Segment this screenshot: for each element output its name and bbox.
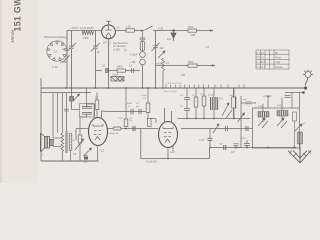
svg-text:5000: 5000 — [127, 103, 133, 105]
dial lamp La1 — [140, 52, 146, 58]
svg-text:713: 713 — [100, 149, 105, 153]
svg-text:+ 150 V: + 150 V — [69, 26, 78, 30]
cap C16 on y147 — [244, 140, 250, 148]
rail end arrow — [210, 29, 213, 31]
UY11 top cap — [106, 21, 110, 25]
svg-text:U 1 2 3: U 1 2 3 — [257, 53, 265, 55]
lamp terminal blob — [304, 86, 307, 89]
svg-text:µµF: µµF — [231, 152, 236, 154]
coil unit 1 hatched — [259, 112, 268, 118]
svg-text:1 2 3 4 5 6 7 8 9: 1 2 3 4 5 6 7 8 9 — [166, 83, 183, 85]
capacitor C6 on y70 — [132, 68, 134, 73]
coil unit 2 hatched — [278, 111, 287, 117]
series cap on y128 — [133, 126, 135, 131]
resistor R4 box — [188, 64, 197, 67]
grid wire y128 left — [76, 128, 89, 130]
resistor R14 x233 — [232, 97, 236, 108]
wire x108 vertical — [108, 38, 110, 88]
svg-text:0,1µF: 0,1µF — [208, 95, 214, 97]
pot arrow above antenna coil — [295, 124, 302, 131]
feed wires into transformer — [53, 93, 66, 134]
svg-text:a b c d e f g h i: a b c d e f g h i — [164, 91, 178, 93]
y147 dots — [246, 147, 269, 149]
right components row: caps C10 stacked — [184, 88, 190, 119]
V1 bottom lead — [97, 145, 99, 161]
wire x155.5 vertical — [155, 31, 157, 46]
resistor R9 vertical x97 — [95, 100, 99, 110]
resistor R1 sawtooth under rail — [82, 31, 93, 35]
wire y118.5 left — [148, 118, 156, 120]
tube V2 envelope — [159, 122, 178, 148]
wire y147.5 — [234, 147, 294, 149]
svg-text:C 22: C 22 — [52, 65, 58, 69]
junction dot y128 — [125, 128, 127, 130]
right verticals from bus — [233, 88, 235, 119]
svg-text:Mende: Mende — [10, 29, 15, 42]
svg-text:≈18: ≈18 — [205, 46, 210, 49]
svg-text:4µF: 4µF — [167, 38, 172, 41]
wire y147.5 mid — [210, 147, 241, 149]
grid wire y128 mid — [108, 128, 159, 130]
speaker magnet — [50, 139, 54, 145]
coupling resistor oval — [113, 127, 121, 130]
svg-text:5µF: 5µF — [219, 98, 223, 100]
x76 drop — [75, 129, 77, 141]
y118 dots — [186, 118, 235, 120]
wire y70 horizontal — [96, 70, 141, 72]
cap C11 on y128 — [226, 126, 228, 131]
main bus y88 — [41, 87, 306, 89]
switch S1 — [145, 26, 158, 31]
svg-text:1500: 1500 — [83, 37, 89, 40]
electrolytic C4 triangle — [171, 30, 176, 41]
box right x209.5 — [209, 148, 211, 159]
dial lamp — [303, 70, 313, 78]
arrow into antenna wire — [294, 146, 298, 149]
left margin strip — [0, 0, 38, 183]
pot arrow on y128 — [213, 124, 219, 133]
tiny cap on x66.4 — [64, 109, 69, 111]
switch below V1 — [83, 148, 92, 156]
R12 wires — [203, 88, 205, 96]
top rail mid segment — [115, 30, 144, 32]
svg-text:in 250 … 2µ: in 250 … 2µ — [113, 48, 127, 51]
svg-text:0,1µF 1500V: 0,1µF 1500V — [80, 27, 94, 30]
series cap x247 — [246, 126, 248, 131]
left stub cap — [234, 144, 239, 148]
V2 top leads — [164, 108, 166, 123]
switch on x67 — [64, 55, 71, 62]
UY11 electrodes — [106, 26, 112, 39]
grid resistor box R10b — [148, 119, 152, 127]
svg-text:8Ω: 8Ω — [275, 53, 278, 55]
T1 bottom wires — [61, 151, 63, 161]
L1 wires — [213, 88, 215, 97]
svg-text:5000: 5000 — [117, 66, 123, 69]
tube socket detail — [47, 41, 67, 61]
pot arrow x241 — [238, 113, 245, 122]
resistor R12 x204 — [202, 96, 206, 106]
coil1 frame — [258, 112, 269, 118]
earth hatches — [289, 151, 311, 157]
svg-text:0,1µF 500: 0,1µF 500 — [147, 162, 158, 164]
switch contact block — [84, 157, 88, 160]
svg-text:305: 305 — [181, 74, 186, 77]
volume pot x80 — [79, 118, 81, 162]
V1 screen wire — [102, 110, 109, 113]
R9 wire — [96, 93, 98, 101]
y147.5 junction dot — [209, 147, 211, 149]
pot arrows mid — [222, 103, 232, 118]
earth symbol — [288, 148, 311, 163]
coil1 arrows — [258, 118, 268, 128]
mid rail y65 — [156, 65, 216, 67]
rectifier tube UY11 — [102, 25, 116, 39]
R11 wires — [195, 88, 197, 97]
pot arrow near x160 top — [158, 51, 165, 58]
top rail left segment — [67, 30, 102, 32]
svg-text:Anpass.: Anpass. — [275, 66, 284, 69]
R9 lower wire — [96, 110, 98, 118]
wire x95.5 vertical — [95, 31, 97, 46]
T1 secondary winding — [69, 134, 72, 151]
output transformer T1 primary loops — [61, 133, 64, 151]
V1 top leads — [94, 104, 96, 118]
paper background — [0, 0, 320, 183]
bus junction dots — [65, 87, 164, 89]
svg-text:151 GW: 151 GW — [13, 0, 23, 32]
y65 end arrow — [212, 64, 215, 66]
svg-text:1,05: 1,05 — [126, 26, 131, 29]
cathode drop x210 — [209, 129, 211, 139]
box bottom y158.5 — [141, 158, 210, 160]
resistor R11 x196 — [194, 97, 198, 107]
coil2 arrows — [277, 118, 287, 128]
box drop x140.8 — [140, 129, 142, 159]
capacitor C2 with arrow — [91, 43, 100, 52]
secondary hatch — [69, 136, 72, 148]
V1 electrodes — [93, 124, 103, 140]
coil section box — [253, 108, 300, 148]
series cap on y147.5 — [224, 145, 226, 150]
bottom dot — [167, 158, 169, 160]
speaker link wires — [53, 133, 61, 147]
wire y128 — [181, 128, 241, 130]
resistor R2 box on rail — [126, 29, 135, 32]
pot wiper arrow — [75, 139, 84, 150]
resistor R5 box on y70 — [117, 69, 126, 72]
inner small component right — [293, 112, 297, 121]
C5 plates — [106, 68, 108, 73]
svg-text:Punkt: Punkt — [275, 57, 281, 60]
lamp wire down — [142, 65, 144, 88]
x126 feed vertical — [125, 88, 127, 119]
wire x241 vertical — [240, 96, 242, 148]
IF can feed vertical — [86, 88, 88, 104]
table text rows — [257, 53, 284, 69]
x156 stub — [155, 119, 157, 124]
wire x67 vertical — [66, 31, 68, 89]
anode wire y104 from V1 — [87, 104, 95, 107]
antenna coil outline — [298, 132, 303, 144]
wire y118 — [178, 118, 251, 120]
secondary bus y92 — [41, 92, 91, 94]
capacitor C1 with arrow — [67, 43, 76, 52]
svg-text:L43: L43 — [170, 150, 175, 154]
socket to box wire — [60, 61, 67, 63]
svg-text:–0,05: –0,05 — [157, 27, 164, 30]
svg-text:µµF: µµF — [243, 99, 248, 101]
resistor R3 box on rail — [188, 29, 197, 32]
small cap far right top — [285, 96, 291, 98]
resistor R10 vertical x148 — [146, 103, 150, 113]
svg-text:0,05µF 5Ω: 0,05µF 5Ω — [108, 133, 119, 135]
pot feed wire — [72, 109, 80, 111]
svg-text:UY 11: UY 11 — [103, 41, 111, 45]
pot arrow top-left x75 — [74, 94, 80, 101]
svg-text:0,05µF: 0,05µF — [130, 54, 138, 57]
capacitor C8 pair — [139, 109, 141, 114]
IF can dashed box — [80, 104, 95, 118]
crossed box resistor R6 — [111, 77, 124, 82]
lamp lead wire — [305, 78, 308, 86]
svg-text:0,1µF: 0,1µF — [141, 95, 147, 97]
grid wire y111 — [108, 111, 148, 113]
blob second — [302, 91, 305, 94]
top rail right segment — [157, 30, 213, 32]
V2 bottom leads — [167, 148, 169, 159]
svg-text:0,1µF: 0,1µF — [112, 74, 119, 77]
fuse Si — [140, 31, 146, 52]
bottom bus y161 — [41, 160, 99, 162]
svg-text:F 2 4 1: F 2 4 1 — [257, 58, 265, 60]
svg-text:4700: 4700 — [241, 138, 247, 140]
bus ticks group — [166, 85, 244, 88]
hatched coil L1 — [211, 97, 218, 110]
R10 wires — [147, 88, 149, 103]
tube V1 envelope — [89, 118, 108, 146]
coil unit wires — [263, 93, 300, 123]
cap C15 top right — [241, 102, 256, 104]
small box on x71.5 — [70, 97, 74, 102]
V2 electrodes — [163, 127, 173, 143]
capacitor C5 on y70 — [102, 68, 109, 73]
stub x268 — [267, 97, 269, 109]
R13 wires — [233, 88, 235, 97]
svg-text:4µF: 4µF — [160, 47, 165, 50]
wire y128 into box — [241, 128, 253, 130]
wire x71.5 vertical — [71, 31, 73, 47]
svg-text:mögl.: mögl. — [275, 62, 281, 64]
zigzag resistor R7 vertical x163 — [162, 58, 165, 88]
pot resistor body — [78, 135, 82, 143]
svg-text:Röhrenbeschaltung: Röhrenbeschaltung — [44, 35, 67, 39]
coil2 frame — [277, 111, 288, 117]
speaker — [41, 133, 50, 152]
left frame wire x41 — [40, 78, 42, 161]
svg-text:0,1µF: 0,1µF — [199, 140, 205, 142]
svg-text:5000: 5000 — [188, 61, 194, 64]
svg-text:V 2 10 4: V 2 10 4 — [257, 67, 266, 69]
capacitor C7 pair — [131, 109, 133, 114]
cathode cap plates — [208, 138, 213, 140]
svg-text:5000: 5000 — [188, 26, 194, 29]
svg-text:+205: +205 — [190, 34, 196, 37]
measurement table — [256, 50, 289, 69]
left scan edge — [0, 0, 2, 183]
antenna coil wire — [299, 144, 301, 150]
resistor above y128 — [124, 119, 128, 127]
capacitor C3 on wire x155.5 — [152, 43, 160, 52]
dial lamp La2 — [140, 59, 146, 65]
IF can bottom wire — [80, 114, 87, 117]
resistor R13 x234 — [232, 97, 236, 108]
antenna coil box — [298, 133, 303, 143]
IF can coil bars — [82, 107, 92, 115]
junction dot — [141, 30, 143, 32]
svg-text:5µF: 5µF — [219, 143, 223, 145]
T1 core — [66, 131, 67, 153]
svg-text:L 1 30 2: L 1 30 2 — [257, 62, 266, 64]
